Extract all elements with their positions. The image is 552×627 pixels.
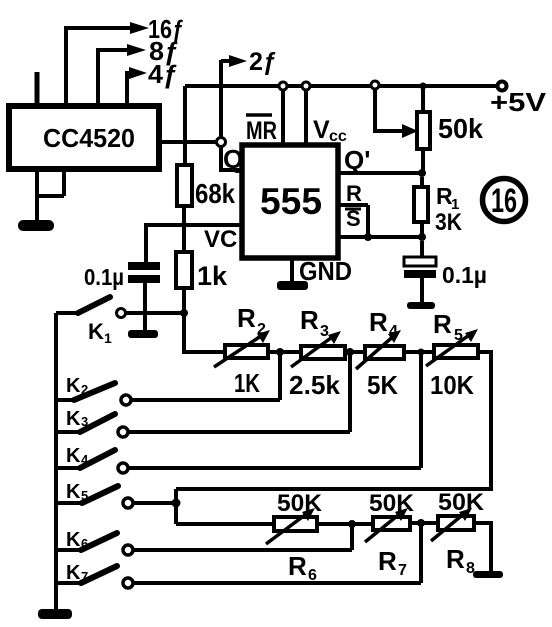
trimmer R3	[301, 346, 345, 359]
svg-text:R: R	[346, 181, 362, 206]
wire 4f output	[127, 73, 130, 106]
resistor 1k	[182, 225, 186, 313]
switch K1	[56, 311, 78, 315]
svg-text:6: 6	[308, 567, 317, 584]
junction dot R7/R8	[417, 519, 425, 527]
svg-text:68k: 68k	[195, 178, 235, 209]
wire riser K6	[350, 524, 354, 550]
junction dot R/S	[364, 233, 372, 241]
wire pot bottom	[421, 149, 425, 173]
svg-text:2: 2	[257, 321, 266, 338]
wire R5 right to K5 bar top	[176, 352, 491, 489]
wire S pin	[338, 235, 422, 239]
svg-text:16: 16	[491, 182, 517, 220]
switch K3	[56, 430, 80, 434]
wire R8 right down	[474, 523, 491, 572]
svg-text:K: K	[66, 445, 81, 467]
wire R pin	[338, 205, 368, 237]
ground C1	[128, 330, 158, 338]
switch K6	[56, 548, 81, 552]
wire 50k wiper	[375, 89, 403, 131]
wire K6 row	[133, 548, 352, 552]
svg-text:2: 2	[81, 382, 88, 397]
wire K3 row	[128, 430, 350, 434]
ground R8	[473, 571, 503, 578]
svg-text:2.5k: 2.5k	[289, 370, 341, 400]
capacitor C1 0.1u left	[128, 262, 160, 270]
junction dot R1 bottom	[418, 233, 426, 241]
trimmer R6	[274, 517, 317, 531]
svg-text:6: 6	[81, 536, 88, 551]
junction dot Q'/R1	[418, 169, 426, 177]
wire K5 to bar	[133, 501, 176, 505]
svg-text:1k: 1k	[197, 261, 228, 291]
svg-text:1: 1	[104, 330, 112, 346]
trimmer R2	[225, 345, 268, 358]
arrow 16f	[130, 22, 149, 34]
junction dot R3/R4	[346, 348, 354, 356]
trimmer R4	[365, 346, 404, 359]
svg-text:R: R	[300, 305, 319, 335]
ground bus	[38, 609, 72, 619]
junction dot VC node	[181, 222, 187, 228]
wire R4-R5	[404, 350, 434, 354]
svg-text:50K: 50K	[277, 490, 323, 517]
capacitor C2 0.1u right	[420, 241, 424, 258]
wire riser K3	[348, 352, 352, 432]
svg-text:7: 7	[81, 569, 88, 584]
wire MR pin	[281, 90, 285, 145]
arrow 4f	[129, 67, 147, 79]
node Q junction ring	[217, 138, 226, 147]
wire 1k node to R chain	[184, 313, 225, 352]
left bus wire	[54, 313, 58, 610]
svg-text:R: R	[446, 544, 465, 574]
wire R2-R3	[268, 350, 301, 354]
svg-text:3: 3	[81, 414, 88, 429]
wire K4 row	[128, 466, 421, 470]
IC U1 CC4520	[9, 106, 159, 169]
IC U2 555	[242, 145, 338, 258]
svg-text:MR: MR	[246, 117, 277, 145]
wire riser K2	[278, 352, 282, 400]
arrow 8f	[127, 44, 146, 56]
junction ring Vcc rail	[302, 82, 310, 90]
wire node Q to 555	[221, 146, 242, 170]
svg-text:R: R	[237, 303, 256, 333]
svg-text:50K: 50K	[369, 490, 415, 517]
junction ring MR rail	[279, 82, 287, 90]
wire VC	[146, 225, 242, 262]
junction dot R6/R7	[348, 520, 356, 528]
wire 8f output	[98, 50, 128, 106]
svg-text:CC4520: CC4520	[43, 123, 135, 153]
wire riser K7	[419, 523, 423, 583]
wire K1 to node	[126, 311, 184, 315]
wire K7 row	[133, 581, 421, 585]
wire 555 GND pin	[290, 258, 294, 283]
svg-text:+5V: +5V	[490, 87, 547, 117]
svg-text:4: 4	[81, 452, 89, 467]
wire clock stub above CC4520	[35, 72, 40, 106]
resistor 68k	[177, 165, 192, 206]
power rail +5V	[185, 84, 498, 88]
svg-text:50k: 50k	[438, 113, 483, 144]
arrow 50k wiper	[402, 124, 418, 138]
svg-text:R: R	[433, 309, 452, 339]
svg-text:50K: 50K	[438, 489, 485, 516]
wire Vcc pin	[304, 90, 308, 145]
svg-text:555: 555	[260, 181, 322, 222]
junction dot K1 node	[180, 309, 188, 317]
svg-text:4: 4	[389, 323, 398, 340]
svg-text:GND: GND	[299, 256, 352, 286]
svg-text:K: K	[66, 562, 81, 584]
junction ring 50k branch	[371, 81, 379, 89]
switch K2	[56, 398, 76, 402]
wire K5 vertical bar	[174, 489, 178, 524]
switch K5	[56, 501, 82, 505]
wire 2f riser from node Q	[219, 60, 223, 137]
svg-text:3: 3	[320, 323, 329, 340]
resistor R1	[420, 177, 424, 237]
wire CC4520 output to node Q	[159, 140, 216, 144]
ground 555	[277, 281, 308, 290]
svg-text:2ƒ: 2ƒ	[249, 48, 277, 76]
svg-text:K: K	[88, 319, 104, 344]
svg-text:R: R	[369, 307, 388, 337]
svg-text:4ƒ: 4ƒ	[148, 59, 178, 89]
svg-text:10K: 10K	[430, 370, 474, 400]
svg-text:5: 5	[454, 327, 463, 344]
junction dot R4/R5	[418, 349, 425, 356]
svg-text:Q': Q'	[344, 145, 370, 175]
wire rail down to 68k	[183, 86, 187, 165]
junction dot K5	[172, 499, 181, 508]
potentiometer 50k body	[417, 112, 430, 149]
svg-text:K: K	[66, 529, 81, 551]
svg-text:0.1µ: 0.1µ	[442, 262, 487, 288]
svg-text:5K: 5K	[367, 370, 398, 400]
trimmer R8	[438, 516, 474, 530]
svg-text:cc: cc	[329, 128, 347, 145]
svg-text:VC: VC	[204, 226, 237, 253]
svg-text:3K: 3K	[435, 209, 463, 236]
svg-text:V: V	[313, 116, 330, 144]
svg-text:7: 7	[398, 562, 407, 579]
switch K4	[56, 466, 80, 470]
ground CC4520	[18, 220, 54, 231]
wire CC4520 ground pins	[37, 169, 64, 221]
wire riser K4	[419, 352, 423, 468]
figure number 16	[483, 179, 526, 222]
wire 16f output	[66, 28, 132, 106]
terminal +5V	[498, 82, 507, 91]
svg-text:K: K	[66, 375, 81, 397]
svg-text:0.1µ: 0.1µ	[84, 264, 124, 290]
switch K7	[56, 581, 81, 585]
svg-text:1K: 1K	[234, 368, 260, 398]
wire R3-R4	[345, 350, 365, 354]
ground C2	[407, 302, 435, 309]
svg-text:K: K	[66, 408, 81, 430]
trimmer R7	[373, 517, 410, 530]
wire K5 bar bottom to R6	[176, 522, 274, 526]
svg-text:5: 5	[81, 488, 88, 503]
trimmer R5	[434, 345, 478, 358]
wire Q' output	[338, 171, 422, 175]
wire K2 row	[131, 398, 280, 402]
svg-text:K: K	[66, 481, 81, 503]
junction dot R2/R3	[276, 348, 284, 356]
junction dot pot top	[420, 83, 427, 90]
svg-text:R: R	[288, 551, 307, 581]
arrow 2f	[221, 59, 230, 63]
wire R6-R7	[317, 522, 373, 526]
svg-text:R: R	[378, 546, 397, 576]
wire pot top	[421, 86, 425, 112]
wire 68k to VC node	[182, 206, 186, 225]
svg-text:Q: Q	[223, 144, 243, 174]
wire R7-R8	[410, 521, 438, 525]
